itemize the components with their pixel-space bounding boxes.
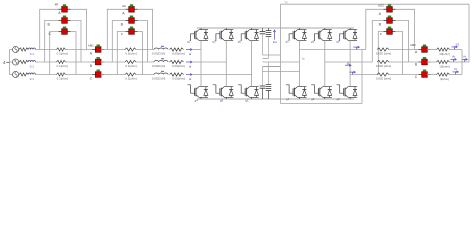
breaker kM1 phase B	[92, 57, 104, 65]
svg-text:Vc: Vc	[454, 67, 458, 71]
inductor Lsa	[28, 48, 35, 56]
svg-text:3[ohm]: 3[ohm]	[440, 77, 449, 81]
wire bypass loop A group3	[366, 9, 415, 49]
inductor 0.0023H phase c	[152, 71, 168, 80]
rectifier leg 3 vertical	[251, 40, 253, 86]
IGBT T1 inverter top	[289, 28, 306, 41]
wire phase a to bypass group 1	[35, 49, 56, 51]
current arrow phase a	[186, 48, 192, 56]
label BRK3 name	[378, 3, 384, 7]
gate label g1 inverter	[286, 40, 290, 44]
wire phase a group1 out	[66, 49, 96, 51]
label C kM2	[415, 75, 418, 79]
breaker kM2 phase A	[419, 45, 431, 53]
label A kM2	[415, 50, 418, 54]
gate label g3 inverter	[311, 40, 315, 44]
svg-text:B: B	[121, 23, 124, 27]
svg-text:0.1[ohm]: 0.1[ohm]	[125, 52, 136, 56]
wire phase a group3 out	[389, 49, 422, 51]
resistor 0.1ohm group2 phase a	[125, 48, 137, 56]
AC source Va	[13, 46, 19, 52]
wire R load out c	[450, 74, 463, 76]
source neutral bus wire	[10, 50, 13, 75]
svg-text:0.05[ohm]: 0.05[ohm]	[172, 52, 185, 56]
svg-text:Ia: Ia	[189, 77, 192, 81]
svg-text:Ia: Ia	[189, 64, 192, 68]
gate label g2 inverter	[336, 97, 340, 101]
svg-text:B: B	[379, 23, 382, 27]
wire ground riser	[280, 4, 282, 103]
wire phase c group3 out	[389, 74, 422, 76]
svg-text:B: B	[415, 63, 418, 67]
gate label g4 rectifier	[195, 99, 199, 103]
svg-text:g4: g4	[195, 99, 199, 103]
svg-text:C: C	[415, 75, 418, 79]
IGBT B3 rectifier bottom	[238, 85, 259, 99]
resistor 0.002ohm phase c	[376, 73, 391, 81]
svg-text:B: B	[47, 22, 50, 26]
svg-text:0.1: 0.1	[30, 77, 34, 81]
wire phase a to filter	[136, 49, 154, 51]
wire right ground drop	[468, 4, 470, 62]
svg-text:0.1[ohm]: 0.1[ohm]	[57, 64, 68, 68]
breaker BRK2c	[126, 27, 138, 35]
svg-text:c: c	[121, 32, 123, 36]
resistor 0.1ohm group2 phase b	[125, 60, 137, 68]
svg-text:4R: 4R	[55, 2, 60, 6]
inverter leg 2 vertical	[324, 40, 326, 86]
svg-text:kM2: kM2	[410, 43, 416, 47]
wire phase c to bypass group 1	[35, 74, 56, 76]
AC source Vb	[13, 59, 19, 65]
svg-text:A: A	[58, 11, 61, 15]
wire phase b group3 out	[389, 61, 422, 63]
svg-text:0.002 [ohm]: 0.002 [ohm]	[376, 64, 391, 68]
IGBT T3 inverter top	[340, 28, 357, 41]
svg-text:g5: g5	[336, 40, 340, 44]
AC source Vc	[13, 71, 19, 77]
svg-text:4G: 4G	[122, 4, 127, 8]
wire phase c group1 out	[66, 74, 96, 76]
gate label g5 inverter	[336, 40, 340, 44]
current arrow load phase c	[349, 71, 355, 75]
node 4 label	[3, 60, 10, 65]
svg-text:kG2: kG2	[378, 3, 384, 7]
wire breaker to R load a	[427, 49, 437, 51]
svg-text:Ed: Ed	[273, 40, 277, 44]
node label B group3	[379, 23, 382, 27]
wire phase C kM1 out	[101, 74, 125, 76]
svg-text:0.1[ohm]: 0.1[ohm]	[125, 64, 136, 68]
wire top ground run	[281, 1, 470, 4]
capacitor C1 top	[260, 28, 266, 55]
svg-text:10[ohm]: 10[ohm]	[439, 52, 450, 56]
svg-text:g3: g3	[311, 40, 315, 44]
wire R load out b	[450, 61, 463, 63]
resistor 0.1ohm group2 phase c	[125, 73, 137, 81]
svg-text:kM1: kM1	[88, 43, 94, 47]
voltmeter arrow Vn	[462, 55, 468, 62]
svg-text:0.1[ohm]: 0.1[ohm]	[57, 77, 68, 81]
gate label g1 rectifier	[187, 40, 191, 44]
svg-text:0.0023 [H]: 0.0023 [H]	[152, 52, 166, 56]
label BRK1 name	[55, 2, 60, 6]
wire phase A kM1 out	[101, 49, 125, 51]
wire bypass loop c group2	[117, 32, 142, 75]
resistor 0.1ohm group1 phase c	[57, 73, 69, 81]
resistor Rsc	[19, 73, 28, 76]
svg-text:g4: g4	[286, 97, 290, 101]
resistor load phase a	[437, 48, 450, 56]
svg-text:0.0023 [H]: 0.0023 [H]	[152, 77, 166, 81]
resistor 0.1ohm group1 phase a	[57, 48, 69, 56]
label C kM1	[90, 77, 93, 81]
breaker BRK1C	[59, 27, 71, 35]
svg-text:0.0023 [H]: 0.0023 [H]	[152, 64, 166, 68]
IGBT T2 rectifier top	[216, 28, 233, 41]
inverter leg 1 vertical	[299, 40, 301, 86]
svg-text:Vb: Vb	[452, 55, 456, 59]
current arrow load phase b	[345, 62, 351, 66]
capacitor C2 bottom	[266, 62, 272, 99]
svg-text:0.1: 0.1	[30, 52, 34, 56]
wire phase a to rectifier leg	[192, 49, 201, 51]
wire bypass loop B group3	[372, 21, 408, 63]
IGBT B1 inverter bottom	[286, 85, 307, 99]
breaker BRK3B	[384, 16, 396, 24]
breaker kM2 phase B	[419, 57, 431, 65]
IGBT B3 inverter bottom	[337, 85, 358, 99]
svg-text:g6: g6	[220, 99, 224, 103]
wire inverter phase b out	[325, 61, 373, 63]
breaker kM2 phase C	[419, 70, 431, 78]
resistor load phase c	[437, 73, 450, 81]
svg-text:Vn: Vn	[463, 55, 467, 59]
capacitor C1 bottom	[260, 67, 266, 100]
current arrow load phase a	[353, 46, 359, 50]
wire bypass loop c group3	[378, 32, 402, 75]
wire breaker to R load c	[427, 74, 437, 76]
resistor Rsa	[19, 48, 28, 51]
capacitor C2 top	[266, 28, 272, 59]
gate label g2 rectifier	[245, 99, 249, 103]
svg-text:Vg: Vg	[284, 1, 288, 4]
svg-text:Ic: Ic	[302, 57, 305, 61]
svg-text:0.1[ohm]: 0.1[ohm]	[57, 52, 68, 56]
resistor 0.05ohm phase a	[170, 48, 186, 56]
wire inverter phase a out	[300, 49, 366, 51]
resistor 0.1ohm group1 phase b	[57, 60, 69, 68]
label B kM2	[415, 63, 418, 67]
IGBT B2 rectifier bottom	[213, 85, 234, 99]
breaker kM1 phase C	[92, 70, 104, 78]
svg-text:g2: g2	[245, 99, 249, 103]
svg-text:0.1[ohm]: 0.1[ohm]	[125, 77, 136, 81]
gate label g5 rectifier	[238, 40, 242, 44]
wire bypass loop B group1	[45, 21, 81, 63]
resistor load phase b	[437, 60, 450, 68]
gate label g4 inverter	[286, 97, 290, 101]
svg-text:10[ohm]: 10[ohm]	[439, 64, 450, 68]
gate label g6 inverter	[311, 97, 315, 101]
svg-text:4: 4	[3, 60, 6, 65]
breaker BRK3c	[384, 27, 396, 35]
svg-text:c: c	[380, 32, 382, 36]
current arrow phase c	[186, 73, 192, 81]
svg-text:A: A	[379, 12, 382, 16]
svg-text:0.1: 0.1	[30, 65, 34, 69]
voltmeter arrow Vb	[451, 55, 457, 62]
svg-text:g5: g5	[238, 40, 242, 44]
svg-text:0.002 [ohm]: 0.002 [ohm]	[376, 52, 391, 56]
breaker BRK2B	[126, 16, 138, 24]
svg-text:g6: g6	[311, 97, 315, 101]
breaker BRK1B	[59, 16, 71, 24]
svg-text:Ia: Ia	[189, 52, 192, 56]
label BRK2 name	[122, 4, 127, 8]
label kM2	[410, 43, 416, 47]
current label mid	[302, 57, 305, 61]
svg-text:V2: V2	[456, 42, 460, 46]
wire DC+ rail	[197, 27, 354, 29]
wire bypass loop A group1	[40, 9, 87, 49]
gate label g6 rectifier	[220, 99, 224, 103]
inductor 0.0023H phase b	[152, 59, 168, 68]
wire phase c to filter	[136, 74, 154, 76]
IGBT T3 rectifier top	[241, 28, 258, 41]
label kM1	[88, 43, 94, 47]
resistor Rsb	[19, 60, 28, 63]
inductor 0.0023H phase a	[152, 46, 168, 55]
svg-text:C: C	[90, 77, 93, 81]
IGBT B1 rectifier bottom	[187, 85, 208, 99]
resistor 0.002ohm phase b	[376, 60, 391, 68]
node label A group2	[122, 12, 125, 16]
node label A group3	[379, 12, 382, 16]
voltmeter arrow Vc	[453, 67, 459, 74]
voltmeter arrow Ed top	[273, 30, 277, 44]
rectifier leg 2 vertical	[225, 40, 227, 86]
wire phase c to rectifier leg	[192, 74, 252, 76]
wire R load out a	[450, 49, 463, 51]
IGBT T1 rectifier top	[191, 28, 208, 41]
wire phase b to filter	[136, 61, 154, 63]
wire bottom return	[281, 50, 363, 104]
rectifier leg 1 vertical	[200, 40, 202, 86]
resistor 0.05ohm phase c	[170, 73, 186, 81]
IGBT B2 inverter bottom	[311, 85, 332, 99]
IGBT T2 inverter top	[314, 28, 331, 41]
svg-text:0.002 [ohm]: 0.002 [ohm]	[376, 77, 391, 81]
svg-text:A: A	[415, 50, 418, 54]
breaker kM1 phase A	[92, 45, 104, 53]
inverter leg 3 vertical	[349, 40, 351, 86]
svg-text:B: B	[90, 64, 93, 68]
wire phase B kM1 out	[101, 61, 125, 63]
svg-text:A: A	[90, 52, 93, 56]
gate label g3 rectifier	[212, 40, 216, 44]
breaker BRK3A	[384, 4, 396, 12]
inductor Lsb	[28, 61, 35, 69]
svg-text:g2: g2	[336, 97, 340, 101]
node label c group2	[121, 32, 123, 36]
wire bypass loop A group2	[107, 9, 152, 49]
wire load star point	[462, 50, 469, 75]
node label A group1	[58, 11, 61, 15]
node label c group3	[380, 32, 382, 36]
svg-text:A: A	[122, 12, 125, 16]
wire phase b to bypass group 1	[35, 61, 56, 63]
wire breaker to R load b	[427, 61, 437, 63]
svg-text:0.05[ohm]: 0.05[ohm]	[172, 64, 185, 68]
svg-text:g1: g1	[286, 40, 290, 44]
node label B group1	[47, 22, 50, 26]
label B kM1	[90, 64, 93, 68]
svg-text:0.05[ohm]: 0.05[ohm]	[172, 77, 185, 81]
svg-text:C: C	[48, 32, 51, 36]
wire bypass loop B group2	[112, 21, 147, 63]
svg-text:g3: g3	[212, 40, 216, 44]
label A kM1	[90, 52, 93, 56]
wire DC- rail	[197, 98, 354, 100]
voltmeter arrow Va	[452, 42, 460, 49]
wire phase b to rectifier leg	[192, 61, 226, 63]
breaker BRK1A	[59, 4, 71, 12]
breaker BRK2A	[126, 4, 138, 12]
inductor Lsc	[28, 73, 35, 81]
svg-text:g1: g1	[187, 40, 191, 44]
current arrow phase b	[186, 61, 192, 69]
wire bypass loop C group1	[50, 32, 76, 75]
resistor 0.002ohm phase a	[376, 48, 391, 56]
node label C group1	[48, 32, 51, 36]
resistor 0.05ohm phase b	[170, 60, 186, 68]
wire DC midpoint bus	[263, 55, 300, 72]
node label B group2	[121, 23, 124, 27]
wire inverter phase c out	[350, 74, 378, 76]
wire phase b group1 out	[66, 61, 96, 63]
